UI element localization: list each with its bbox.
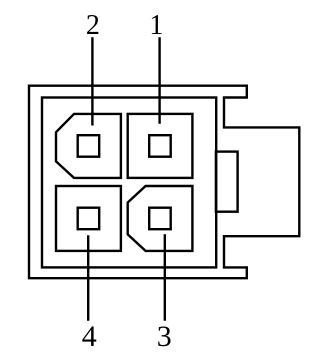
cavity 3 (bottom-right, chamfered) <box>128 186 193 251</box>
svg-text:2: 2 <box>86 10 100 41</box>
leader line pin 2 <box>91 39 93 125</box>
connector outer housing with right-side latch tab <box>29 86 299 279</box>
inner shroud rectangle <box>42 98 216 268</box>
svg-text:3: 3 <box>157 320 172 353</box>
leader line pin 4 <box>87 237 89 320</box>
cavity 4 (bottom-left) <box>56 186 121 251</box>
cavity 2 (top-left, chamfered) <box>56 114 121 178</box>
svg-text:1: 1 <box>149 10 163 41</box>
leader line pin 1 <box>158 39 160 123</box>
pin 4 contact <box>78 208 100 230</box>
svg-text:4: 4 <box>82 320 97 353</box>
pin 1 contact <box>149 135 171 157</box>
pin 2 contact <box>78 135 100 157</box>
cavity 1 (top-right) <box>128 114 193 178</box>
pin 3 contact <box>149 208 171 230</box>
leader line pin 3 <box>164 236 166 320</box>
polarization rib on right wall <box>216 152 238 212</box>
